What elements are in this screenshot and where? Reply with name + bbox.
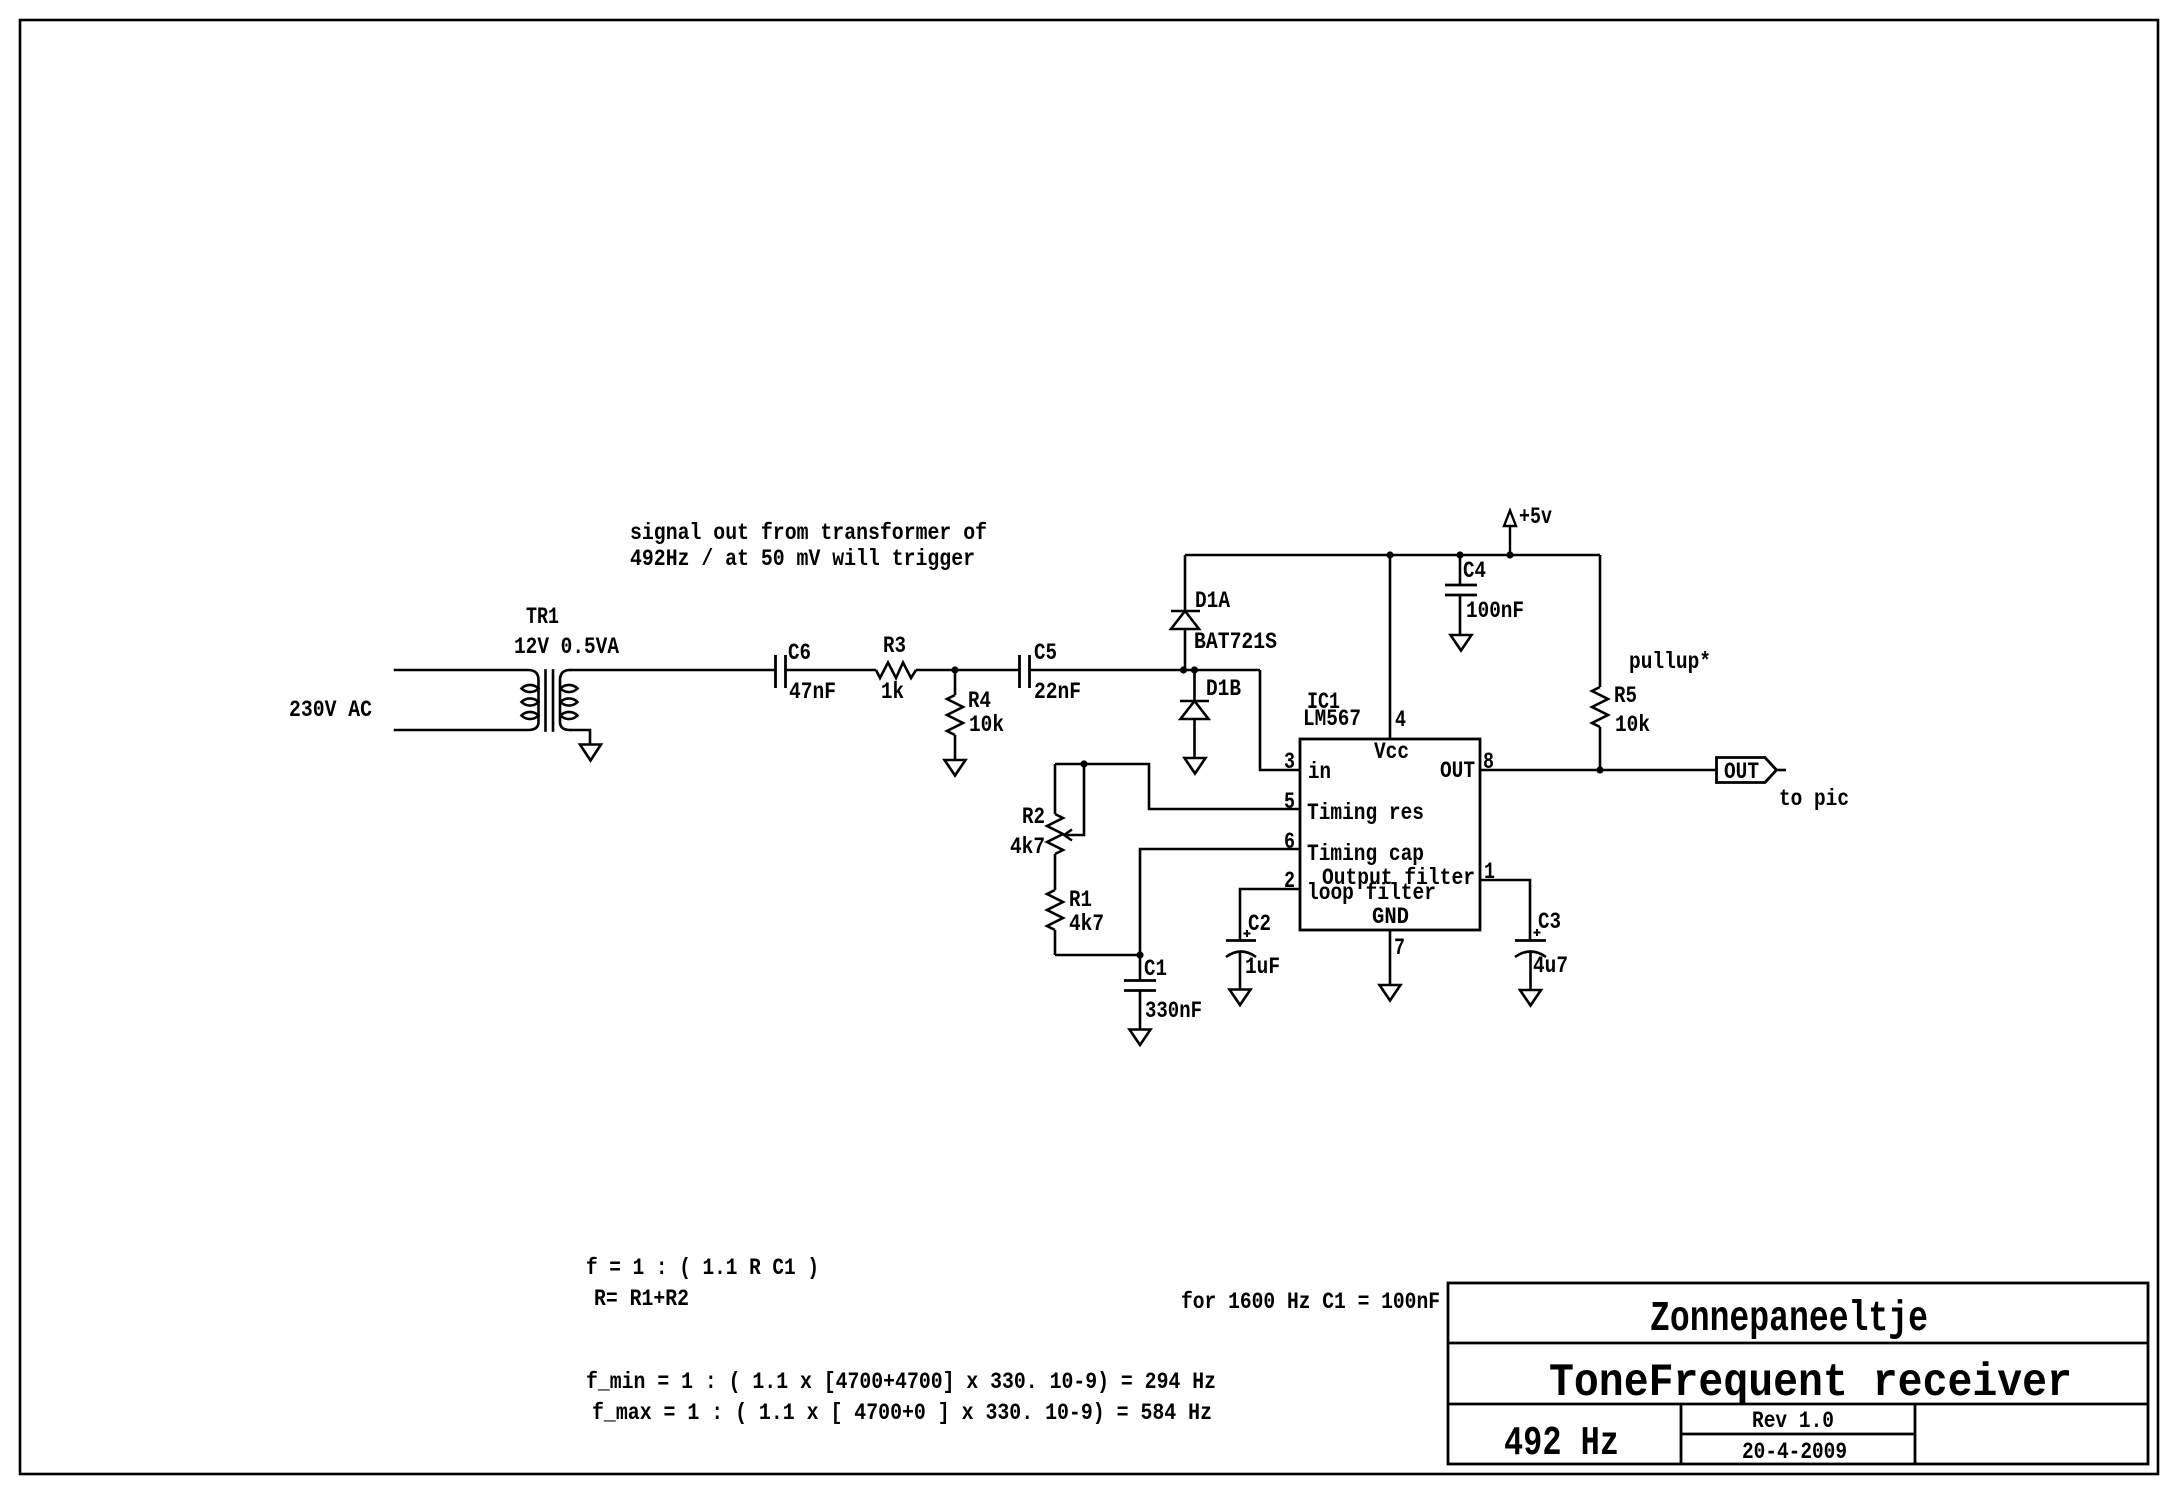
svg-text:22nF: 22nF: [1034, 679, 1081, 706]
resistor R5: [1592, 555, 1608, 770]
svg-text:+5v: +5v: [1519, 504, 1552, 531]
node junction D1A: [1180, 666, 1187, 673]
svg-text:pullup*: pullup*: [1629, 649, 1711, 676]
ground C2: [1230, 990, 1251, 1006]
ground R4: [945, 760, 966, 776]
svg-text:ToneFrequent receiver: ToneFrequent receiver: [1549, 1357, 2072, 1409]
svg-text:20-4-2009: 20-4-2009: [1742, 1439, 1847, 1466]
wire pin 1 to C3: [1480, 880, 1530, 940]
wire pin 6 to C1: [1140, 849, 1300, 980]
svg-text:5: 5: [1284, 789, 1295, 816]
svg-text:for 1600 Hz C1 = 100nF: for 1600 Hz C1 = 100nF: [1181, 1289, 1440, 1316]
wire pin 8 to OUT: [1480, 769, 1716, 772]
ground D1B: [1185, 758, 1206, 774]
svg-text:492Hz / at 50 mV will trigger: 492Hz / at 50 mV will trigger: [630, 546, 975, 573]
svg-text:OUT: OUT: [1724, 759, 1759, 786]
svg-text:Timing cap: Timing cap: [1307, 841, 1424, 868]
resistor R1: [1047, 890, 1063, 955]
svg-text:D1A: D1A: [1195, 588, 1231, 615]
diode D1B: [1180, 670, 1209, 758]
diode D1A: [1171, 555, 1200, 670]
svg-text:C5: C5: [1034, 640, 1057, 667]
svg-text:f_max = 1 : ( 1.1 x [ 4700+0 ]: f_max = 1 : ( 1.1 x [ 4700+0 ] x 330. 10…: [592, 1400, 1212, 1427]
svg-text:C6: C6: [788, 640, 811, 667]
transformer TR1: [395, 670, 578, 731]
ground C1: [1130, 1030, 1151, 1046]
svg-text:1: 1: [1484, 859, 1495, 886]
node junction +5v stub: [1506, 551, 1513, 558]
svg-text:R= R1+R2: R= R1+R2: [594, 1286, 689, 1313]
wire C5 to D1 node: [1030, 669, 1261, 672]
ground C3: [1520, 990, 1541, 1006]
svg-text:47nF: 47nF: [789, 679, 836, 706]
svg-text:C1: C1: [1144, 956, 1167, 983]
svg-text:f = 1 : ( 1.1 R C1 ): f = 1 : ( 1.1 R C1 ): [586, 1255, 819, 1282]
wire node to IC pin 3: [1260, 670, 1300, 770]
svg-text:8: 8: [1483, 749, 1494, 776]
svg-text:C2: C2: [1248, 911, 1271, 938]
title block: [1448, 1283, 2148, 1464]
svg-text:492 Hz: 492 Hz: [1504, 1421, 1619, 1467]
svg-text:R1: R1: [1069, 887, 1092, 914]
svg-text:Rev 1.0: Rev 1.0: [1752, 1408, 1834, 1435]
svg-text:Zonnepaneeltje: Zonnepaneeltje: [1650, 1294, 1928, 1343]
ground C4: [1451, 635, 1472, 651]
svg-text:R5: R5: [1614, 683, 1637, 710]
resistor R4: [947, 670, 963, 760]
annotation: signal out note: [630, 520, 987, 573]
svg-text:BAT721S: BAT721S: [1194, 629, 1277, 656]
node junction C1: [1136, 951, 1143, 958]
svg-text:Timing res: Timing res: [1307, 800, 1424, 827]
capacitor C4: [1445, 555, 1477, 635]
svg-text:3: 3: [1284, 749, 1295, 776]
svg-text:230V AC: 230V AC: [289, 697, 372, 724]
svg-text:R3: R3: [883, 633, 906, 660]
power +5v: [1504, 511, 1516, 556]
svg-text:4u7: 4u7: [1533, 953, 1568, 980]
capacitor C5: [1020, 655, 1030, 688]
node junction R5/OUT: [1596, 766, 1603, 773]
svg-text:6: 6: [1284, 829, 1295, 856]
svg-text:TR1: TR1: [526, 604, 559, 631]
node junction wiper: [1080, 760, 1087, 767]
svg-text:330nF: 330nF: [1145, 998, 1202, 1025]
svg-text:f_min = 1 : ( 1.1 x [4700+4700: f_min = 1 : ( 1.1 x [4700+4700] x 330. 1…: [586, 1369, 1216, 1396]
svg-text:signal out from transformer of: signal out from transformer of: [630, 520, 987, 547]
wire pin 2 to C2: [1240, 889, 1300, 940]
svg-text:4: 4: [1395, 707, 1406, 734]
wire +5v rail: [1185, 554, 1600, 557]
svg-text:4k7: 4k7: [1069, 911, 1104, 938]
svg-text:C4: C4: [1463, 558, 1486, 585]
svg-text:R4: R4: [968, 688, 991, 715]
node junction Vcc rail: [1386, 551, 1393, 558]
wire pin 5 to R2: [1055, 764, 1300, 809]
wire R1 to C1: [1055, 954, 1140, 957]
node junction C4 rail: [1456, 551, 1463, 558]
node junction D1B: [1191, 666, 1198, 673]
svg-text:loop filter: loop filter: [1307, 880, 1436, 907]
svg-text:GND: GND: [1372, 904, 1409, 931]
svg-text:to pic: to pic: [1779, 786, 1849, 813]
svg-text:7: 7: [1394, 935, 1405, 962]
svg-text:in: in: [1308, 759, 1331, 786]
svg-text:D1B: D1B: [1206, 676, 1241, 703]
svg-text:Vcc: Vcc: [1374, 739, 1409, 766]
svg-text:2: 2: [1284, 868, 1295, 895]
capacitor C2: [1226, 930, 1256, 989]
resistor R3: [876, 663, 916, 679]
svg-text:10k: 10k: [969, 712, 1004, 739]
svg-text:OUT: OUT: [1440, 758, 1475, 785]
connector OUT: [1717, 758, 1787, 783]
svg-text:100nF: 100nF: [1466, 598, 1524, 625]
capacitor C6: [776, 655, 786, 688]
ground TR1: [580, 745, 601, 761]
wire TR1 secondary bottom to ground: [570, 730, 590, 744]
capacitor C3: [1515, 929, 1546, 990]
svg-text:10k: 10k: [1615, 712, 1650, 739]
svg-text:LM567: LM567: [1303, 706, 1361, 733]
wire R3 to C5: [916, 669, 1019, 672]
ground IC pin 7: [1380, 985, 1401, 1001]
wire pin 7 GND: [1389, 930, 1392, 985]
svg-text:1uF: 1uF: [1245, 954, 1280, 981]
node junction R3/R4/C5: [951, 666, 958, 673]
svg-text:12V 0.5VA: 12V 0.5VA: [514, 634, 620, 661]
wire pin 4 Vcc: [1389, 555, 1392, 739]
svg-text:4k7: 4k7: [1010, 834, 1045, 861]
wire TR1 secondary to C6: [570, 669, 775, 672]
wire C6 to R3: [786, 669, 877, 672]
svg-text:1k: 1k: [881, 679, 904, 706]
svg-text:R2: R2: [1022, 804, 1045, 831]
svg-text:C3: C3: [1538, 909, 1561, 936]
potentiometer R2: [1047, 764, 1084, 890]
capacitor C1: [1124, 981, 1156, 1030]
IC1 LM567: [1300, 739, 1480, 930]
